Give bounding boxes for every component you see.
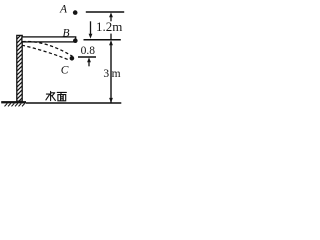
svg-text:B: B xyxy=(63,28,70,40)
3m top arrowhead (points up to B line) xyxy=(109,40,113,45)
ball C xyxy=(70,56,75,61)
label 水面 (water surface) drawn as strokes xyxy=(46,91,67,100)
beam (plank) xyxy=(22,37,76,42)
dashed trajectory lower xyxy=(22,45,70,60)
3m dimension line xyxy=(110,42,112,103)
svg-text:3: 3 xyxy=(103,68,109,80)
wall xyxy=(14,32,24,106)
0.8 dimension down arrow (above B line) xyxy=(89,21,93,38)
3m bottom arrowhead (points down to water) xyxy=(109,98,113,103)
svg-text:C: C xyxy=(61,64,69,76)
1.2m dimension lower stem xyxy=(110,34,112,40)
point A dot xyxy=(73,10,78,15)
ground base xyxy=(1,101,26,106)
B-level line xyxy=(84,39,121,41)
A-level line xyxy=(86,11,124,13)
dashed trajectory upper xyxy=(23,41,73,56)
svg-text:A: A xyxy=(59,4,68,16)
svg-text:m: m xyxy=(112,68,121,80)
ball B xyxy=(73,38,78,43)
C-level line xyxy=(78,56,96,58)
svg-text:0.8: 0.8 xyxy=(81,45,96,57)
1.2m dimension upper arrow (points up to A line) xyxy=(109,12,113,21)
svg-text:1.2m: 1.2m xyxy=(96,19,122,34)
water line xyxy=(26,102,121,104)
0.8 dimension up arrow (below C line) xyxy=(87,57,91,66)
